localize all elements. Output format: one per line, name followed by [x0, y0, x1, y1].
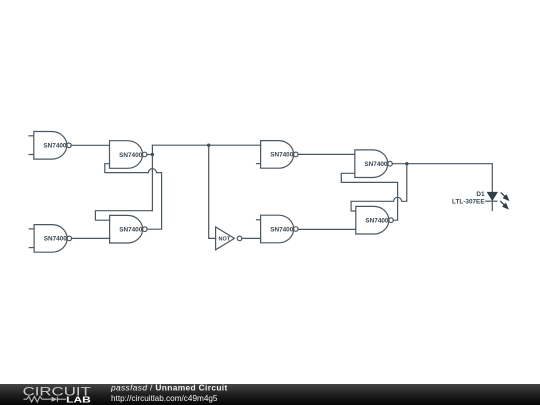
- svg-text:SN7400: SN7400: [270, 226, 294, 233]
- wire: LED cathode lead: [491, 201, 493, 210]
- wire: U4 output to U8 input B: [298, 228, 356, 230]
- U4 unconnected input A stub: [256, 219, 261, 221]
- wire: U2 output net to U3 input A (horizontal run): [152, 144, 260, 146]
- wire: U2 output to vertical bus: [147, 154, 153, 156]
- wire: U7 output net down-left to U8 input A (with hop): [351, 164, 407, 211]
- svg-text:passfasd / Unnamed Circuit: passfasd / Unnamed Circuit: [110, 383, 228, 393]
- junction: NOT branch: [207, 144, 210, 147]
- wire: U3 output to U7 input A: [298, 153, 355, 155]
- wire: U2 output net down-left to U6 input A: [95, 211, 152, 221]
- junction: U2 output meets bus: [151, 153, 154, 156]
- nand gate U3 (SN7400) upper middle: [256, 141, 298, 169]
- wire: NOT output to U4 input B: [242, 237, 261, 239]
- svg-text:SN7400: SN7400: [364, 161, 388, 168]
- LED D1 symbol: [485, 192, 497, 201]
- svg-text:SN7400: SN7400: [43, 143, 67, 150]
- wire: U8 output feedback to U7 input B: [341, 173, 397, 220]
- svg-text:SN7400: SN7400: [119, 227, 143, 234]
- nand gate U5 (SN7400) bottom-left: [29, 225, 72, 253]
- footer bar: [0, 384, 540, 405]
- wire: U6 output feedback to U2 input B (with hop over bus): [105, 164, 162, 230]
- nand gate U1 (SN7400) top-left: [28, 132, 71, 160]
- U1 input pin stubs: [28, 135, 33, 137]
- svg-text:SN7400: SN7400: [119, 152, 143, 159]
- inverter NOT1: [216, 227, 242, 250]
- svg-text:D1: D1: [476, 191, 485, 198]
- wire: U1 output to U2 input A: [71, 144, 109, 146]
- wire: U7 output node to LED branch: [392, 164, 492, 193]
- wire: U5 output to U6 input B: [71, 237, 109, 239]
- D1 light emission arrows: [500, 192, 508, 208]
- svg-text:LAB: LAB: [66, 394, 91, 404]
- svg-text:SN7400: SN7400: [44, 236, 68, 243]
- svg-text:SN7400: SN7400: [270, 152, 294, 159]
- U5 input pin stubs: [29, 228, 34, 230]
- nand gate U2 (SN7400): [110, 141, 148, 169]
- nand gate U7 (SN7400) right upper: [355, 150, 393, 178]
- logo resistor-diode squiggle: [24, 396, 67, 402]
- U3 unconnected input B stub: [256, 163, 261, 165]
- nand gate U8 (SN7400) right lower: [356, 206, 394, 234]
- svg-text:SN7400: SN7400: [365, 218, 389, 225]
- nand gate U6 (SN7400): [110, 215, 148, 243]
- svg-text:LTL-307EE: LTL-307EE: [452, 199, 485, 206]
- junction: LED / U8 feedback branch: [405, 162, 408, 165]
- wire: vertical bus at x=152.4 (U2 output net): [151, 145, 153, 211]
- wire: branch down to NOT input: [209, 145, 216, 238]
- nand gate U4 (SN7400) lower middle: [256, 215, 298, 243]
- svg-text:http://circuitlab.com/c49m4g5: http://circuitlab.com/c49m4g5: [111, 394, 218, 403]
- svg-text:NOT: NOT: [218, 237, 230, 243]
